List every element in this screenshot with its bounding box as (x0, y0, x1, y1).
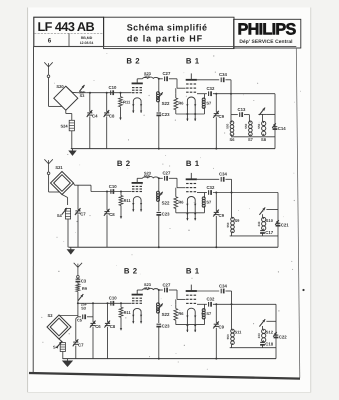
svg-text:C23: C23 (162, 112, 170, 117)
svg-text:550: 550 (226, 123, 230, 128)
coil S24 below frame antenna (60, 110, 74, 148)
svg-text:550: 550 (257, 123, 261, 128)
trimmer capacitor above S8 (258, 108, 275, 121)
node at C9 branch (215, 93, 217, 95)
node at S23/C27 junction (158, 177, 160, 179)
svg-text:C32: C32 (206, 86, 214, 91)
wire node down to C5 level (77, 303, 79, 317)
B1 anode stub (190, 73, 192, 79)
PHILIPS logo box (234, 19, 301, 48)
svg-text:S20: S20 (56, 84, 64, 89)
coil S12 (257, 329, 274, 342)
page bottom edge (28, 391, 311, 393)
antenna down-wire (row 2) (49, 175, 60, 192)
inner bottom wire (230, 235, 278, 237)
capacitor C22 on right vertical (273, 332, 287, 339)
wire C34 down to main wire (231, 291, 233, 304)
svg-text:S24: S24 (60, 123, 68, 128)
ground symbol at bus (67, 359, 69, 361)
coil S7 at B1 cathode (202, 304, 212, 324)
stub R6 top (175, 88, 177, 94)
capacitor C23 (156, 313, 170, 359)
coil S7 at B1 cathode (202, 94, 212, 114)
resistor R11 (119, 303, 131, 331)
antenna (row 1) (44, 62, 48, 67)
svg-text:S21: S21 (55, 165, 63, 170)
capacitor C34 (219, 172, 231, 182)
block bottom wire (231, 136, 275, 138)
node C34 line at main wire (231, 192, 233, 194)
main grid wire (row 2) (91, 191, 132, 193)
svg-text:C10: C10 (109, 85, 117, 90)
wire B1 to right (197, 93, 207, 95)
wire jog from C27 to B1 grid (177, 178, 186, 187)
svg-text:PHILIPS: PHILIPS (238, 21, 297, 39)
frame antenna S2 (47, 313, 71, 339)
capacitor C32 (206, 86, 275, 96)
svg-text:B1: B1 (186, 57, 202, 66)
node at C9 branch (215, 303, 217, 305)
capacitor C3 (76, 278, 87, 284)
ground bus (row 1) (71, 148, 275, 150)
svg-text:C7: C7 (78, 343, 84, 348)
svg-text:C34: C34 (219, 172, 227, 177)
right vertical wire (277, 193, 279, 248)
svg-text:555: 555 (144, 175, 150, 179)
B2 anode lead (136, 290, 138, 295)
svg-text:R11: R11 (124, 310, 132, 315)
node at S23/C27 junction (158, 289, 160, 291)
coil S7 secondary (244, 115, 254, 143)
svg-text:C22: C22 (279, 334, 287, 339)
capacitor C27 (159, 282, 178, 292)
ground symbol at bus (72, 149, 74, 151)
wire B1 anode to C34 (197, 290, 219, 292)
trimmer S3 (row 3) (78, 292, 88, 311)
svg-text:C10: C10 (109, 296, 117, 301)
B1 anode stub (190, 285, 192, 291)
svg-text:S3: S3 (81, 307, 86, 311)
svg-text:S12: S12 (266, 330, 274, 335)
triode-hexode B2 (row 2) (117, 159, 143, 212)
svg-text:R6: R6 (178, 199, 184, 204)
svg-text:550: 550 (226, 334, 230, 339)
coil S23 (137, 71, 158, 79)
svg-text:C34: C34 (219, 283, 227, 288)
coil S23 (137, 282, 158, 290)
main grid wire (row 1) (87, 92, 132, 94)
node C9 to ground bus (215, 358, 217, 360)
capacitor C34 (219, 283, 231, 293)
capacitor C10 (row 2) (109, 184, 117, 194)
main grid wire (row 3) (78, 302, 132, 304)
coil S23 (137, 170, 158, 178)
stub R6 top (175, 299, 177, 304)
triode-hexode B2 (row 1) (126, 57, 142, 114)
coil S9 (226, 193, 240, 236)
variable coil S4 (row 3) (53, 339, 65, 359)
ground symbol at bus (70, 247, 72, 249)
node at R11 top (120, 92, 122, 94)
variable capacitor C6 (90, 303, 101, 358)
svg-text:S2: S2 (47, 313, 53, 318)
node above C6 (92, 302, 94, 304)
svg-text:R9: R9 (82, 286, 88, 291)
page left edge (27, 8, 29, 393)
svg-text:Schéma simplifié: Schéma simplifié (127, 22, 208, 32)
wire B1 anode to C34 (197, 79, 219, 81)
node C23 to ground bus (158, 246, 160, 248)
svg-text:R6: R6 (178, 311, 184, 316)
svg-text:B2: B2 (124, 266, 140, 275)
node above C8 (row 3) (107, 302, 109, 304)
node C9 to ground bus (215, 148, 217, 150)
svg-text:LF 443 AB: LF 443 AB (37, 20, 94, 34)
variable capacitor C7 (row 2) (75, 185, 86, 247)
capacitor C34 (219, 72, 231, 82)
wire C34 down to main wire (231, 179, 233, 192)
svg-text:de la partie HF: de la partie HF (127, 34, 203, 44)
capacitor C5 (77, 314, 93, 322)
svg-text:S22: S22 (162, 101, 170, 106)
tube B1 (row 1) (186, 57, 203, 122)
wire R6 to S7 (176, 113, 205, 115)
svg-text:B1: B1 (186, 159, 202, 168)
node C23 to ground bus (158, 358, 160, 360)
variable capacitor C9 (213, 304, 224, 358)
variable capacitor C9 (213, 193, 224, 248)
node above C8 (row 1) (106, 92, 108, 94)
wire frame antenna to main (row 2) (74, 183, 92, 192)
margin mark dot (302, 289, 304, 291)
capacitor C10 (row 1) (109, 85, 117, 95)
antenna (row 3) (74, 263, 78, 268)
svg-text:C7: C7 (80, 211, 86, 216)
variable coil S22 (157, 178, 170, 205)
node at R11 top (120, 302, 122, 304)
resistor R6 (174, 94, 184, 114)
wire R6 to S7 (176, 324, 205, 326)
coil S11 (226, 304, 242, 347)
antenna (row 2) (44, 159, 48, 164)
variable coil S4 (row 2) (57, 208, 71, 247)
resistor R11 (119, 93, 131, 121)
svg-text:S7: S7 (206, 199, 212, 204)
svg-text:C18: C18 (265, 342, 273, 347)
node C9 to ground bus (215, 246, 217, 248)
right vertical wire with C14 (274, 94, 276, 149)
page right edge (310, 8, 312, 393)
svg-text:C27: C27 (162, 171, 170, 176)
trimmer above S10 (259, 207, 278, 217)
svg-text:115: 115 (144, 286, 150, 290)
svg-text:C9: C9 (219, 325, 225, 330)
svg-text:S7: S7 (206, 311, 212, 316)
svg-text:6: 6 (48, 37, 52, 44)
header left box LF 443 AB (34, 17, 104, 46)
svg-text:C8: C8 (110, 324, 116, 329)
wire B1 anode to C34 (197, 178, 219, 180)
svg-text:S10: S10 (266, 218, 274, 223)
svg-text:C23: C23 (162, 212, 170, 217)
frame right border (296, 49, 300, 378)
svg-text:C4: C4 (92, 113, 98, 118)
capacitor C18 (260, 342, 274, 348)
wire frame to S4 (62, 195, 68, 206)
svg-text:Dép’ SERVICE Central: Dép’ SERVICE Central (239, 39, 293, 45)
variable coil S22 (157, 79, 170, 106)
stub R6 top (175, 188, 177, 193)
capacitor C13 (231, 107, 249, 117)
svg-text:12.08.54: 12.08.54 (80, 41, 94, 45)
variable capacitor C4 (87, 93, 98, 149)
resistor R9 (76, 284, 88, 292)
node C34 line at main wire (231, 303, 233, 305)
wire right vertical drop (C34 line) (230, 94, 232, 115)
ground bus (row 2) (69, 246, 279, 248)
svg-text:S22: S22 (162, 200, 170, 205)
trimmer above S12 (259, 319, 276, 329)
variable coil S22 (157, 290, 170, 317)
svg-text:233: 233 (257, 221, 261, 226)
svg-text:B2: B2 (126, 57, 142, 66)
coil S6 (226, 115, 236, 143)
variable capacitor C8 (row 2) (104, 192, 115, 248)
svg-text:RB,MD: RB,MD (81, 36, 93, 40)
svg-text:S4: S4 (53, 344, 59, 349)
antenna down-wire (row 1) (49, 78, 63, 107)
capacitor C23 (156, 201, 170, 247)
svg-text:S8: S8 (261, 137, 267, 142)
right vertical wire (275, 304, 277, 358)
svg-text:B2: B2 (117, 159, 133, 168)
svg-text:C8: C8 (109, 113, 115, 118)
svg-text:C3: C3 (81, 278, 87, 283)
header title box (104, 17, 234, 48)
svg-text:S22: S22 (162, 312, 170, 317)
coil S8 (257, 121, 267, 142)
B2 anode lead (136, 178, 138, 183)
variable capacitor C8 (row 3) (104, 303, 115, 358)
B1 anode stub (190, 173, 192, 179)
svg-text:C9: C9 (219, 213, 225, 218)
coil S7 at B1 cathode (202, 193, 212, 213)
frame antenna S20 (54, 84, 78, 110)
svg-text:R11: R11 (123, 99, 131, 104)
svg-text:C17: C17 (265, 230, 273, 235)
svg-text:C27: C27 (162, 282, 170, 287)
svg-text:233: 233 (257, 333, 261, 338)
node C23 to ground bus (158, 148, 160, 150)
wire C34 down to main wire (230, 80, 232, 94)
ground bus (row 3) (62, 358, 276, 360)
svg-text:C6: C6 (95, 324, 101, 329)
svg-text:S7: S7 (248, 137, 254, 142)
svg-text:C27: C27 (162, 71, 170, 76)
svg-text:C13: C13 (238, 107, 246, 112)
wire B1 to right (197, 303, 207, 305)
svg-text:C10: C10 (109, 184, 117, 189)
svg-text:S6: S6 (230, 137, 236, 142)
tube B1 (row 2) (186, 159, 203, 221)
capacitor C17 (260, 230, 274, 236)
capacitor C21 on right vertical (275, 220, 289, 227)
variable capacitor C9 (213, 94, 224, 149)
frame top rule (34, 46, 297, 48)
node main (row 3) (77, 302, 79, 304)
svg-text:S3: S3 (80, 94, 85, 98)
tube B1 (row 3) (186, 266, 203, 332)
resistor R6 (174, 304, 184, 324)
trimmer coil S3 (66, 85, 87, 98)
capacitor C27 (159, 171, 178, 181)
B2 anode lead (136, 79, 138, 84)
capacitor C14 (272, 123, 286, 131)
svg-text:S11: S11 (235, 330, 243, 335)
node at R11 top (120, 191, 122, 193)
resistor R11 (119, 192, 131, 220)
inner bottom wire (230, 347, 276, 349)
wire R6 to S7 (176, 212, 205, 214)
capacitor C32 (206, 297, 276, 307)
svg-text:550: 550 (244, 123, 248, 128)
svg-text:S4: S4 (57, 213, 63, 218)
frame antenna S21 (51, 165, 74, 195)
frame bottom border (29, 373, 300, 379)
node above C4 (89, 92, 91, 94)
svg-text:C8: C8 (109, 212, 115, 217)
capacitor C27 (159, 71, 178, 81)
variable capacitor C8 (row 1) (104, 93, 115, 149)
svg-text:C14: C14 (278, 126, 286, 131)
svg-text:C5: C5 (77, 317, 83, 322)
node at S23/C27 junction (158, 78, 160, 80)
svg-text:R6: R6 (178, 101, 184, 106)
svg-text:C32: C32 (206, 185, 214, 190)
frame left border (32, 46, 34, 373)
svg-text:S9: S9 (235, 218, 241, 223)
svg-text:C21: C21 (281, 223, 289, 228)
svg-text:C9: C9 (219, 114, 225, 119)
variable capacitor C7 (row 3) (73, 317, 84, 359)
svg-text:C23: C23 (162, 323, 170, 328)
node above C8 (row 2) (106, 191, 108, 193)
svg-text:S7: S7 (206, 101, 212, 106)
svg-text:R11: R11 (124, 198, 132, 203)
svg-text:B1: B1 (186, 266, 202, 275)
coil S10 (257, 217, 274, 230)
wire to frame antenna S2 (59, 315, 78, 317)
svg-text:C32: C32 (206, 297, 214, 302)
node at C9 branch (215, 192, 217, 194)
wire jog from C27 to B1 grid (177, 290, 186, 299)
triode-hexode B2 (row 3) (124, 266, 143, 323)
capacitor C23 (156, 102, 170, 149)
capacitor C10 (row 3) (109, 296, 117, 306)
resistor R6 (174, 193, 184, 213)
svg-text:550: 550 (226, 222, 230, 227)
svg-text:C34: C34 (219, 72, 227, 77)
wire jog from C27 to B1 grid (177, 79, 186, 88)
node C34 line at main wire (230, 93, 232, 95)
capacitor C32 (206, 185, 278, 195)
svg-text:255: 255 (144, 75, 150, 79)
wire B1 to right (197, 192, 207, 194)
